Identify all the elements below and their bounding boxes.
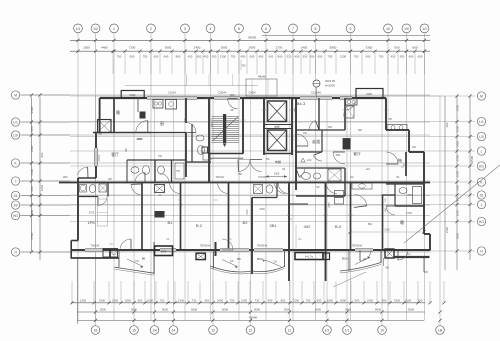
svg-text:L: L bbox=[481, 149, 483, 153]
svg-text:2400: 2400 bbox=[217, 298, 224, 302]
svg-text:3050: 3050 bbox=[345, 191, 347, 197]
svg-text:2100: 2100 bbox=[445, 226, 449, 233]
svg-text:4: 4 bbox=[210, 27, 212, 31]
svg-text:775/234: 775/234 bbox=[258, 177, 267, 179]
svg-text:750: 750 bbox=[379, 55, 384, 59]
svg-text:厨: 厨 bbox=[160, 120, 164, 126]
svg-text:2100: 2100 bbox=[293, 298, 300, 302]
svg-text:2100: 2100 bbox=[384, 230, 390, 232]
svg-text:900: 900 bbox=[130, 55, 135, 59]
svg-text:11: 11 bbox=[288, 328, 292, 332]
svg-text:2700: 2700 bbox=[259, 208, 265, 211]
svg-text:600: 600 bbox=[418, 55, 423, 59]
svg-text:1500: 1500 bbox=[83, 45, 90, 49]
svg-text:520: 520 bbox=[287, 55, 292, 59]
svg-text:960: 960 bbox=[281, 298, 286, 302]
svg-text:2700: 2700 bbox=[30, 232, 34, 239]
svg-text:1500: 1500 bbox=[62, 177, 68, 179]
svg-text:L/0: L/0 bbox=[479, 135, 484, 139]
svg-text:750: 750 bbox=[418, 298, 423, 302]
svg-text:3600: 3600 bbox=[131, 307, 138, 311]
svg-text:2700: 2700 bbox=[89, 212, 95, 215]
svg-text:3300: 3300 bbox=[394, 298, 401, 302]
svg-text:A4: A4 bbox=[366, 167, 370, 171]
svg-text:2700: 2700 bbox=[406, 211, 412, 215]
svg-text:2400: 2400 bbox=[99, 298, 106, 302]
svg-text:10500: 10500 bbox=[470, 155, 474, 164]
svg-text:1.00: 1.00 bbox=[307, 159, 312, 162]
svg-text:TM0924A: TM0924A bbox=[352, 245, 363, 248]
svg-text:1/1: 1/1 bbox=[76, 27, 81, 31]
svg-text:睡: 睡 bbox=[116, 109, 120, 115]
svg-text:450: 450 bbox=[310, 55, 315, 59]
svg-text:走道: 走道 bbox=[312, 138, 320, 144]
svg-text:730: 730 bbox=[255, 298, 260, 302]
svg-text:300: 300 bbox=[212, 55, 217, 59]
svg-text:600: 600 bbox=[318, 55, 323, 59]
svg-text:2900: 2900 bbox=[30, 106, 34, 113]
svg-text:800: 800 bbox=[30, 126, 34, 131]
svg-text:1600: 1600 bbox=[456, 170, 460, 177]
svg-text:10: 10 bbox=[386, 27, 390, 31]
svg-text:1300: 1300 bbox=[220, 55, 227, 59]
svg-text:750: 750 bbox=[241, 65, 246, 68]
svg-text:1650: 1650 bbox=[212, 122, 214, 128]
svg-text:2400: 2400 bbox=[204, 98, 210, 100]
svg-text:5: 5 bbox=[238, 27, 240, 31]
svg-text:J/2: J/2 bbox=[13, 203, 17, 207]
svg-text:14: 14 bbox=[172, 328, 176, 332]
svg-text:B1: B1 bbox=[168, 220, 174, 225]
svg-text:1/1: 1/1 bbox=[422, 27, 427, 31]
svg-text:2400: 2400 bbox=[194, 45, 201, 49]
svg-text:1/2: 1/2 bbox=[93, 27, 98, 31]
svg-text:450: 450 bbox=[295, 55, 300, 59]
svg-text:2400: 2400 bbox=[367, 298, 374, 302]
svg-text:3600: 3600 bbox=[375, 307, 382, 311]
svg-text:960: 960 bbox=[205, 298, 210, 302]
svg-text:1/1: 1/1 bbox=[345, 328, 350, 332]
svg-text:2001.05: 2001.05 bbox=[325, 79, 336, 83]
svg-text:450: 450 bbox=[391, 55, 396, 59]
svg-text:960: 960 bbox=[317, 298, 322, 302]
svg-text:2350: 2350 bbox=[295, 107, 297, 113]
svg-text:1650: 1650 bbox=[327, 298, 334, 302]
svg-text:800: 800 bbox=[278, 55, 283, 59]
svg-text:1800: 1800 bbox=[125, 298, 132, 302]
svg-text:12: 12 bbox=[249, 328, 253, 332]
svg-text:L/0: L/0 bbox=[13, 133, 18, 137]
svg-text:1500: 1500 bbox=[229, 95, 235, 97]
svg-text:600: 600 bbox=[412, 45, 417, 49]
svg-text:450: 450 bbox=[259, 55, 264, 59]
svg-text:9: 9 bbox=[350, 27, 352, 31]
svg-text:7100: 7100 bbox=[129, 45, 136, 49]
svg-text:1200: 1200 bbox=[112, 298, 119, 302]
svg-text:960: 960 bbox=[382, 298, 387, 302]
svg-text:13: 13 bbox=[211, 328, 215, 332]
svg-text:XC: XC bbox=[298, 177, 302, 179]
svg-text:5600: 5600 bbox=[315, 307, 322, 311]
svg-text:3600: 3600 bbox=[254, 307, 261, 311]
svg-text:FM1021: FM1021 bbox=[216, 177, 225, 179]
svg-text:730: 730 bbox=[192, 298, 197, 302]
svg-text:1200: 1200 bbox=[340, 55, 347, 59]
svg-text:1/0: 1/0 bbox=[404, 27, 409, 31]
svg-text:2100: 2100 bbox=[241, 298, 248, 302]
svg-text:B0.6: B0.6 bbox=[257, 257, 263, 261]
svg-text:900: 900 bbox=[366, 55, 371, 59]
svg-text:960: 960 bbox=[268, 298, 273, 302]
svg-text:750: 750 bbox=[143, 55, 148, 59]
svg-text:B6: B6 bbox=[142, 257, 146, 261]
svg-text:1: 1 bbox=[113, 27, 115, 31]
svg-text:900: 900 bbox=[394, 45, 399, 49]
svg-text:1800: 1800 bbox=[340, 298, 347, 302]
svg-text:1300: 1300 bbox=[80, 298, 87, 302]
svg-text:C1524A: C1524A bbox=[311, 91, 321, 95]
svg-text:TM0924A: TM0924A bbox=[200, 245, 211, 248]
svg-text:41940: 41940 bbox=[249, 316, 258, 320]
svg-text:2100: 2100 bbox=[247, 209, 249, 215]
svg-text:3600: 3600 bbox=[345, 307, 352, 311]
svg-text:2300: 2300 bbox=[130, 93, 136, 97]
svg-text:拖: 拖 bbox=[398, 157, 402, 163]
svg-text:电梯: 电梯 bbox=[275, 159, 281, 164]
svg-text:客厅: 客厅 bbox=[111, 152, 119, 157]
svg-text:1400: 1400 bbox=[40, 184, 44, 191]
svg-text:4800: 4800 bbox=[137, 139, 143, 141]
svg-text:L/1: L/1 bbox=[479, 120, 484, 124]
svg-text:K/1: K/1 bbox=[479, 164, 484, 168]
svg-text:1500: 1500 bbox=[456, 125, 460, 132]
svg-text:402: 402 bbox=[304, 224, 311, 229]
svg-text:3400: 3400 bbox=[30, 145, 34, 152]
svg-text:5600: 5600 bbox=[222, 307, 229, 311]
svg-text:2700: 2700 bbox=[276, 45, 283, 49]
svg-text:2600: 2600 bbox=[249, 45, 256, 49]
svg-text:750: 750 bbox=[160, 298, 165, 302]
svg-text:1/2: 1/2 bbox=[325, 328, 330, 332]
svg-text:2550: 2550 bbox=[456, 104, 460, 111]
svg-text:3600: 3600 bbox=[100, 307, 107, 311]
svg-text:B6: B6 bbox=[237, 257, 241, 261]
svg-text:640: 640 bbox=[164, 55, 169, 59]
svg-text:750: 750 bbox=[230, 298, 235, 302]
svg-text:1/4: 1/4 bbox=[152, 328, 157, 332]
svg-text:3600: 3600 bbox=[408, 307, 415, 311]
svg-text:1800: 1800 bbox=[344, 112, 346, 118]
svg-text:16: 16 bbox=[94, 328, 98, 332]
svg-text:860: 860 bbox=[176, 55, 181, 59]
svg-text:2400: 2400 bbox=[301, 45, 308, 49]
svg-text:客厅: 客厅 bbox=[353, 151, 361, 156]
svg-text:M: M bbox=[480, 94, 483, 98]
svg-text:B2: B2 bbox=[243, 220, 249, 225]
svg-text:4400: 4400 bbox=[101, 45, 108, 49]
svg-text:C1524A: C1524A bbox=[218, 92, 227, 95]
svg-text:C1524: C1524 bbox=[168, 91, 176, 95]
svg-text:J/1: J/1 bbox=[13, 194, 17, 198]
svg-text:电梯: 电梯 bbox=[274, 125, 280, 129]
svg-text:900: 900 bbox=[40, 152, 44, 157]
svg-text:B4-3: B4-3 bbox=[297, 101, 306, 106]
svg-text:900: 900 bbox=[250, 55, 255, 59]
svg-text:500: 500 bbox=[303, 55, 308, 59]
svg-text:2950: 2950 bbox=[456, 232, 460, 239]
svg-text:FM1: FM1 bbox=[336, 155, 341, 157]
svg-text:4F: 4F bbox=[230, 108, 233, 112]
svg-text:960: 960 bbox=[355, 298, 360, 302]
svg-text:H=2200: H=2200 bbox=[325, 84, 335, 88]
svg-text:750: 750 bbox=[117, 55, 122, 59]
svg-text:2300: 2300 bbox=[161, 251, 167, 254]
svg-text:1100: 1100 bbox=[30, 168, 34, 175]
svg-text:1650: 1650 bbox=[456, 209, 460, 216]
svg-text:3: 3 bbox=[184, 27, 186, 31]
svg-text:1650: 1650 bbox=[147, 298, 154, 302]
svg-text:B4: B4 bbox=[368, 222, 372, 226]
svg-text:500: 500 bbox=[400, 55, 405, 59]
svg-text:600: 600 bbox=[154, 55, 159, 59]
svg-text:3600: 3600 bbox=[191, 307, 198, 311]
svg-text:C0915: C0915 bbox=[99, 154, 101, 161]
svg-text:700: 700 bbox=[354, 55, 359, 59]
svg-text:B0.6: B0.6 bbox=[342, 257, 348, 261]
svg-text:6: 6 bbox=[265, 27, 267, 31]
svg-text:TM1524: TM1524 bbox=[91, 245, 100, 248]
svg-text:TM0924A: TM0924A bbox=[257, 245, 268, 248]
svg-text:7: 7 bbox=[292, 27, 294, 31]
svg-text:3600: 3600 bbox=[284, 307, 291, 311]
svg-text:L/1: L/1 bbox=[13, 120, 18, 124]
svg-text:3050: 3050 bbox=[329, 202, 331, 208]
svg-text:8: 8 bbox=[315, 27, 317, 31]
svg-text:460: 460 bbox=[445, 122, 449, 127]
svg-text:M: M bbox=[14, 93, 17, 97]
svg-text:15: 15 bbox=[132, 328, 136, 332]
svg-text:450: 450 bbox=[204, 55, 209, 59]
svg-text:1500: 1500 bbox=[30, 209, 34, 216]
svg-text:2100: 2100 bbox=[178, 298, 185, 302]
svg-text:750: 750 bbox=[306, 298, 311, 302]
svg-text:450: 450 bbox=[409, 55, 414, 59]
svg-text:C0924: C0924 bbox=[248, 92, 256, 95]
svg-text:1P6: 1P6 bbox=[87, 220, 95, 225]
svg-text:10: 10 bbox=[380, 328, 384, 332]
svg-text:750: 750 bbox=[328, 55, 333, 59]
svg-text:960: 960 bbox=[138, 298, 143, 302]
svg-text:B.2: B.2 bbox=[196, 223, 203, 228]
svg-text:1500: 1500 bbox=[456, 154, 460, 161]
svg-text:J/1: J/1 bbox=[479, 193, 483, 197]
svg-text:PM1: PM1 bbox=[408, 195, 413, 197]
svg-text:750: 750 bbox=[231, 55, 236, 59]
svg-text:600: 600 bbox=[269, 55, 274, 59]
svg-text:2: 2 bbox=[150, 27, 152, 31]
svg-text:1300: 1300 bbox=[456, 184, 460, 191]
svg-text:5800: 5800 bbox=[330, 45, 337, 49]
svg-text:48x48: 48x48 bbox=[258, 75, 267, 79]
svg-text:450: 450 bbox=[188, 55, 193, 59]
svg-text:1B: 1B bbox=[438, 328, 442, 332]
svg-text:A=1.7m: A=1.7m bbox=[305, 256, 313, 259]
svg-text:2B1: 2B1 bbox=[269, 223, 277, 228]
svg-text:1450: 1450 bbox=[456, 140, 460, 147]
svg-text:2300: 2300 bbox=[366, 92, 372, 96]
svg-text:3600: 3600 bbox=[165, 45, 172, 49]
svg-text:H/1: H/1 bbox=[479, 220, 484, 224]
svg-text:2600: 2600 bbox=[221, 45, 228, 49]
svg-text:900: 900 bbox=[30, 186, 34, 191]
svg-text:1350: 1350 bbox=[274, 173, 280, 176]
svg-text:450: 450 bbox=[241, 55, 246, 59]
svg-text:B.3: B.3 bbox=[335, 224, 342, 229]
svg-text:2100: 2100 bbox=[405, 298, 412, 302]
svg-text:900: 900 bbox=[197, 55, 202, 59]
svg-text:34500: 34500 bbox=[248, 36, 257, 40]
svg-text:H/1: H/1 bbox=[13, 214, 18, 218]
svg-text:睡: 睡 bbox=[400, 219, 404, 225]
svg-text:3600: 3600 bbox=[162, 307, 169, 311]
svg-text:3300: 3300 bbox=[366, 45, 373, 49]
